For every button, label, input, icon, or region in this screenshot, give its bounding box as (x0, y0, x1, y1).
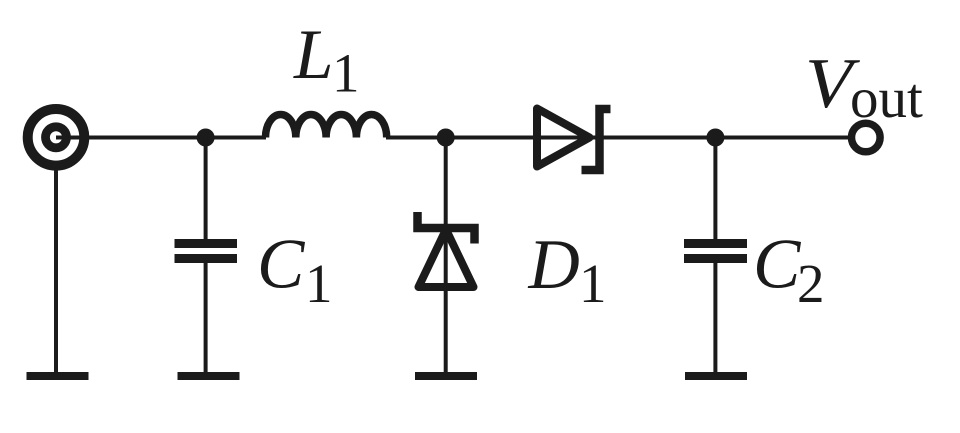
ground (C1) (178, 372, 240, 380)
wire: C1 to ground (204, 262, 208, 372)
node C (C2 junction) (706, 129, 724, 147)
wire: input to inductor (56, 136, 266, 140)
wire: C2 to ground (713, 262, 717, 372)
label C2 (753, 226, 825, 315)
label Vout (805, 45, 923, 130)
ground (C2) (685, 372, 747, 380)
capacitor C2 (684, 244, 747, 259)
wire: node B through D1 to ground (444, 138, 448, 373)
svg-text:1: 1 (579, 253, 607, 314)
wire: connector to ground (54, 165, 58, 372)
ground (input) (27, 372, 89, 380)
svg-text:C: C (753, 226, 802, 304)
svg-text:1: 1 (305, 253, 333, 314)
wire: node A to C1 (204, 138, 208, 241)
wire: inductor to output terminal (386, 136, 848, 140)
svg-text:C: C (257, 226, 306, 304)
label D1 (528, 226, 607, 314)
ground (D1) (415, 372, 477, 380)
zener diode D1 (418, 212, 475, 287)
svg-text:2: 2 (797, 253, 825, 314)
capacitor C1 (175, 244, 238, 259)
node B (D1 junction) (437, 129, 455, 147)
wire: node C to C2 (713, 138, 717, 241)
label L1 (293, 16, 360, 104)
label C1 (257, 226, 333, 315)
svg-text:D: D (528, 226, 580, 304)
svg-text:out: out (850, 67, 923, 130)
output terminal Vout (852, 123, 881, 152)
node A (C1 junction) (197, 129, 215, 147)
svg-text:1: 1 (332, 43, 360, 104)
inductor L1 (266, 114, 387, 137)
svg-text:L: L (293, 16, 334, 94)
input connector J1 (28, 109, 85, 166)
series zener diode D2 (537, 109, 611, 171)
